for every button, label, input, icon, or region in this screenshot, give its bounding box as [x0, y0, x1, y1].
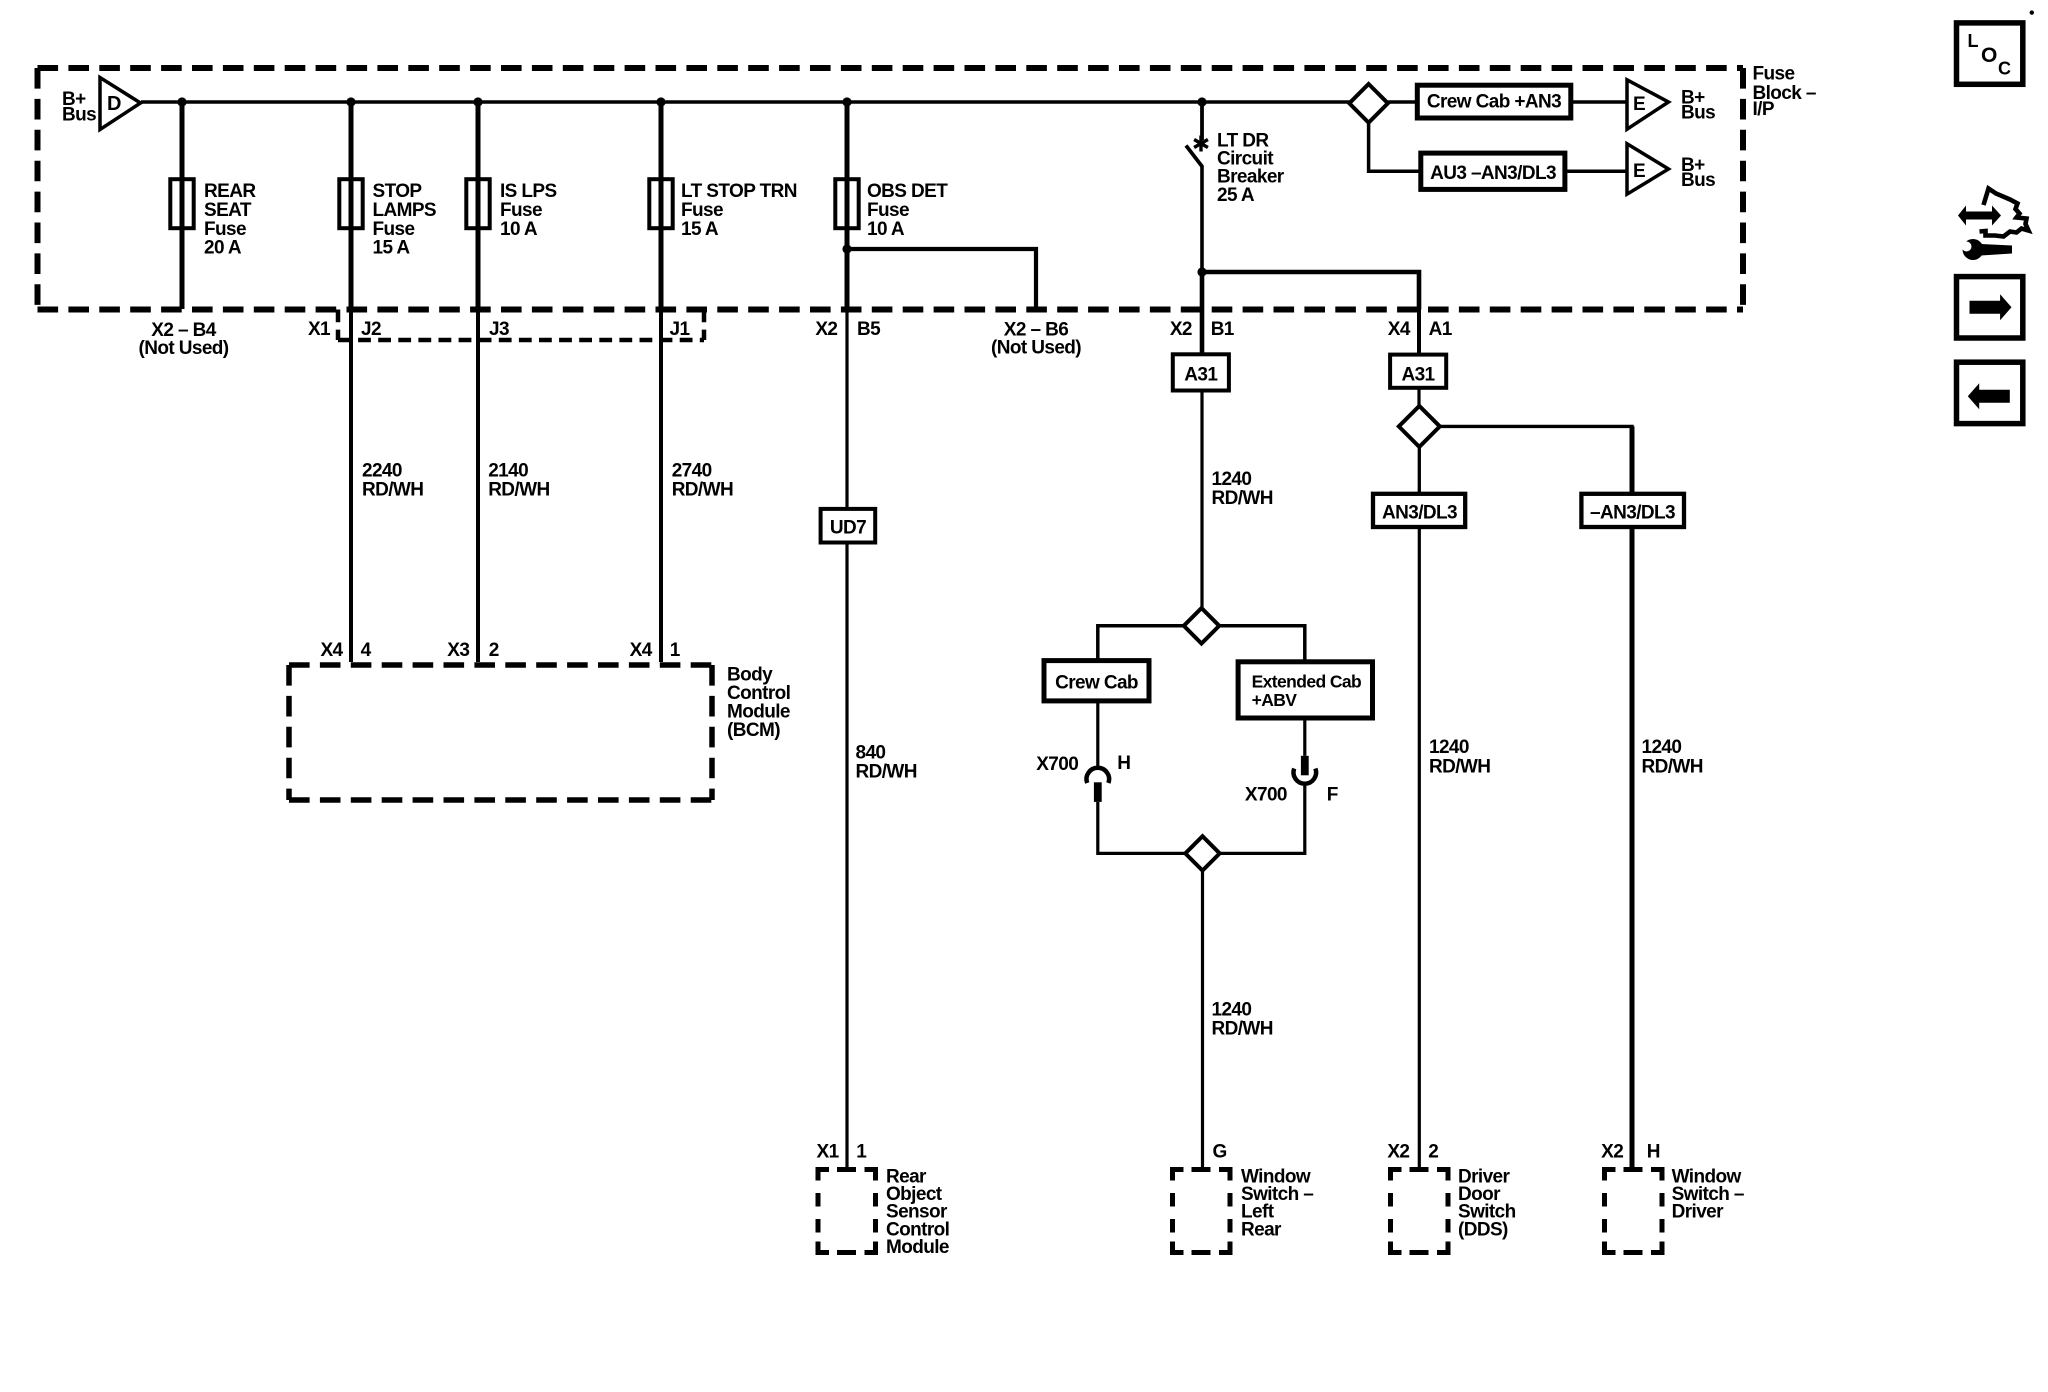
svg-text:X1: X1 [817, 1142, 840, 1163]
svg-text:20 A: 20 A [204, 238, 242, 259]
svg-text:15 A: 15 A [681, 219, 719, 240]
svg-text:Bus: Bus [1681, 103, 1715, 124]
svg-text:X4: X4 [630, 640, 653, 661]
svg-text:AN3/DL3: AN3/DL3 [1382, 503, 1457, 524]
svg-text:Module: Module [886, 1237, 949, 1258]
svg-text:A1: A1 [1429, 319, 1453, 340]
svg-text:Extended Cab: Extended Cab [1252, 672, 1362, 692]
svg-text:RD/WH: RD/WH [1212, 1019, 1273, 1040]
svg-text:X1: X1 [308, 319, 331, 340]
svg-text:X3: X3 [447, 640, 469, 661]
svg-text:E: E [1633, 161, 1645, 182]
svg-text:RD/WH: RD/WH [1642, 757, 1703, 778]
svg-text:Fuse: Fuse [204, 219, 246, 240]
svg-text:RD/WH: RD/WH [488, 480, 549, 501]
svg-text:15 A: 15 A [373, 238, 411, 259]
svg-text:(DDS): (DDS) [1458, 1219, 1508, 1240]
svg-text:B5: B5 [857, 319, 881, 340]
svg-text:25 A: 25 A [1217, 185, 1255, 206]
svg-text:1240: 1240 [1212, 469, 1252, 490]
svg-text:2140: 2140 [488, 461, 528, 482]
svg-text:RD/WH: RD/WH [856, 762, 917, 783]
svg-text:(Not Used): (Not Used) [138, 338, 228, 359]
svg-text:(BCM): (BCM) [727, 720, 780, 741]
svg-text:Driver: Driver [1672, 1202, 1725, 1223]
svg-text:Bus: Bus [1681, 170, 1715, 191]
svg-text:X4: X4 [320, 640, 343, 661]
svg-text:RD/WH: RD/WH [362, 480, 423, 501]
svg-text:I/P: I/P [1753, 99, 1775, 120]
svg-text:Crew Cab +AN3: Crew Cab +AN3 [1427, 92, 1561, 113]
svg-text:A31: A31 [1184, 365, 1218, 386]
svg-text:REAR: REAR [204, 181, 256, 202]
svg-text:SEAT: SEAT [204, 200, 252, 221]
svg-text:F: F [1327, 784, 1338, 805]
svg-text:RD/WH: RD/WH [672, 480, 733, 501]
svg-text:Fuse: Fuse [500, 200, 542, 221]
svg-text:1240: 1240 [1212, 1000, 1252, 1021]
svg-text:X700: X700 [1036, 754, 1078, 775]
svg-text:RD/WH: RD/WH [1212, 488, 1273, 509]
svg-text:840: 840 [856, 743, 886, 764]
svg-text:X2: X2 [1170, 319, 1192, 340]
svg-text:10 A: 10 A [867, 219, 905, 240]
svg-text:Bus: Bus [62, 105, 96, 126]
svg-text:H: H [1117, 753, 1130, 774]
svg-text:X4: X4 [1388, 319, 1411, 340]
svg-text:X2: X2 [1601, 1142, 1623, 1163]
svg-text:J1: J1 [670, 319, 691, 340]
svg-text:E: E [1633, 94, 1645, 115]
svg-text:Rear: Rear [1241, 1219, 1282, 1240]
svg-text:OBS DET: OBS DET [867, 181, 948, 202]
svg-text:Fuse: Fuse [681, 200, 723, 221]
svg-text:J2: J2 [361, 319, 381, 340]
svg-text:X2: X2 [815, 319, 837, 340]
svg-text:IS LPS: IS LPS [500, 181, 557, 202]
svg-text:A31: A31 [1401, 365, 1435, 386]
svg-text:LT STOP TRN: LT STOP TRN [681, 181, 797, 202]
svg-text:Fuse: Fuse [867, 200, 909, 221]
svg-text:1240: 1240 [1429, 737, 1469, 758]
svg-text:D: D [107, 93, 121, 115]
svg-text:1: 1 [856, 1142, 867, 1163]
svg-text:AU3 –AN3/DL3: AU3 –AN3/DL3 [1430, 163, 1556, 184]
svg-text:2: 2 [1428, 1142, 1438, 1163]
svg-text:2240: 2240 [362, 461, 402, 482]
svg-text:10 A: 10 A [500, 219, 538, 240]
svg-text:1: 1 [670, 640, 681, 661]
svg-text:Fuse: Fuse [1753, 63, 1795, 84]
svg-text:J3: J3 [489, 319, 509, 340]
svg-text:STOP: STOP [373, 181, 423, 202]
svg-text:4: 4 [361, 640, 372, 661]
svg-text:Fuse: Fuse [373, 219, 415, 240]
svg-text:2: 2 [489, 640, 499, 661]
svg-text:UD7: UD7 [830, 518, 866, 539]
svg-text:1240: 1240 [1642, 737, 1682, 758]
svg-text:–AN3/DL3: –AN3/DL3 [1590, 503, 1675, 524]
svg-text:H: H [1647, 1142, 1660, 1163]
svg-text:Crew Cab: Crew Cab [1055, 673, 1138, 694]
svg-text:LAMPS: LAMPS [373, 200, 437, 221]
svg-text:L: L [1968, 31, 1979, 51]
svg-text:X2: X2 [1387, 1142, 1409, 1163]
svg-text:RD/WH: RD/WH [1429, 757, 1490, 778]
svg-text:+ABV: +ABV [1252, 690, 1298, 710]
svg-text:(Not Used): (Not Used) [991, 338, 1081, 359]
svg-text:O: O [1981, 44, 1997, 67]
svg-text:2740: 2740 [672, 461, 712, 482]
svg-text:X700: X700 [1245, 784, 1287, 805]
svg-text:G: G [1213, 1142, 1227, 1163]
svg-text:B1: B1 [1211, 319, 1235, 340]
svg-text:C: C [1998, 59, 2011, 79]
